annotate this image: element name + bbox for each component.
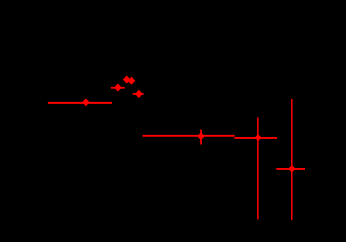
data point 2 diamond marker: [115, 84, 121, 90]
data point 7 x-error bar: [235, 137, 278, 139]
data point 3 y-error bar: [126, 76, 128, 83]
data point 4 diamond marker: [129, 78, 135, 84]
data point 8 y-error bar: [291, 99, 293, 220]
data point 2 y-error bar: [117, 84, 119, 90]
data point 5 x-error bar: [133, 93, 144, 95]
data point 3 diamond marker: [124, 76, 130, 82]
data point 6 x-error bar: [143, 135, 235, 137]
data point 5 y-error bar: [138, 90, 140, 97]
data point 1 diamond marker: [83, 99, 89, 105]
data point 4 y-error bar: [131, 78, 133, 84]
data point 7 y-error bar: [257, 117, 259, 219]
data point 4 x-error bar: [129, 80, 134, 82]
data point 8 diamond marker: [289, 166, 295, 172]
data point 2 x-error bar: [111, 87, 125, 89]
data point 6 diamond marker: [198, 133, 204, 139]
data point 7 diamond marker: [256, 135, 261, 140]
data point 3 x-error bar: [124, 79, 129, 81]
data point 1 x-error bar: [48, 102, 112, 104]
data point 8 x-error bar: [276, 168, 305, 170]
data point 6 y-error bar: [200, 130, 202, 145]
data point 5 diamond marker: [136, 91, 142, 98]
data point 1 y-error bar: [85, 99, 87, 105]
